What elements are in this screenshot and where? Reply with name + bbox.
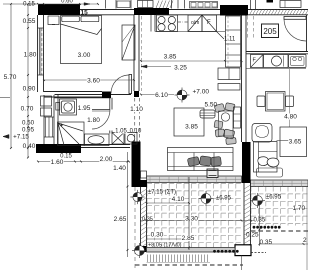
svg-text:1.05: 1.05 [115, 129, 127, 135]
svg-text:2.00: 2.00 [100, 156, 113, 163]
svg-text:±7.15 (ΣΤ): ±7.15 (ΣΤ) [148, 190, 176, 196]
svg-text:±6.95: ±6.95 [216, 196, 232, 202]
svg-text:±6.95: ±6.95 [266, 195, 282, 201]
svg-text:1.80: 1.80 [24, 52, 37, 59]
svg-text:5.70: 5.70 [4, 74, 17, 81]
svg-text:0.25: 0.25 [246, 232, 259, 239]
svg-text:5.50: 5.50 [205, 102, 218, 109]
svg-text:6.10: 6.10 [155, 92, 168, 99]
svg-text:+8.05 (17Λ/0): +8.05 (17Λ/0) [148, 243, 182, 249]
svg-text:1.40: 1.40 [113, 165, 126, 172]
svg-text:o/m: o/m [191, 20, 199, 26]
svg-text:2.65: 2.65 [114, 216, 127, 223]
svg-text:3.65: 3.65 [289, 139, 302, 146]
svg-text:3.85: 3.85 [185, 124, 198, 131]
svg-text:0.15: 0.15 [23, 2, 35, 8]
svg-text:3.30: 3.30 [185, 215, 198, 222]
svg-text:2.85: 2.85 [182, 235, 195, 242]
svg-text:0.95: 0.95 [22, 127, 35, 134]
svg-text:1.10: 1.10 [130, 106, 143, 113]
svg-text:0.10: 0.10 [130, 129, 142, 135]
svg-text:3.00: 3.00 [78, 52, 91, 59]
svg-text:0.40: 0.40 [23, 143, 36, 150]
svg-text:1.60: 1.60 [51, 159, 64, 166]
svg-text:3.25: 3.25 [174, 65, 187, 72]
svg-text:0.35: 0.35 [260, 239, 273, 246]
svg-text:F: F [207, 20, 211, 26]
svg-text:0.90: 0.90 [23, 86, 36, 93]
svg-text:0.60: 0.60 [61, 0, 73, 5]
svg-text:+7.00: +7.00 [193, 89, 210, 96]
svg-text:3.60: 3.60 [87, 77, 100, 84]
svg-text:15: 15 [81, 9, 89, 16]
svg-text:+7.15: +7.15 [13, 134, 29, 141]
svg-text:0.70: 0.70 [21, 106, 34, 113]
svg-text:1.70: 1.70 [293, 205, 306, 212]
svg-text:1.80: 1.80 [87, 117, 100, 124]
svg-text:2: 2 [303, 237, 307, 244]
svg-text:3.85: 3.85 [164, 54, 177, 61]
svg-text:1.95: 1.95 [78, 105, 91, 112]
svg-text:0.55: 0.55 [23, 18, 36, 25]
svg-text:4.80: 4.80 [284, 114, 297, 121]
svg-text:205: 205 [263, 27, 277, 36]
svg-text:0.35: 0.35 [142, 217, 153, 223]
svg-text:0.50: 0.50 [22, 120, 35, 127]
svg-text:4.10: 4.10 [172, 196, 185, 203]
svg-text:0.30: 0.30 [151, 232, 164, 239]
